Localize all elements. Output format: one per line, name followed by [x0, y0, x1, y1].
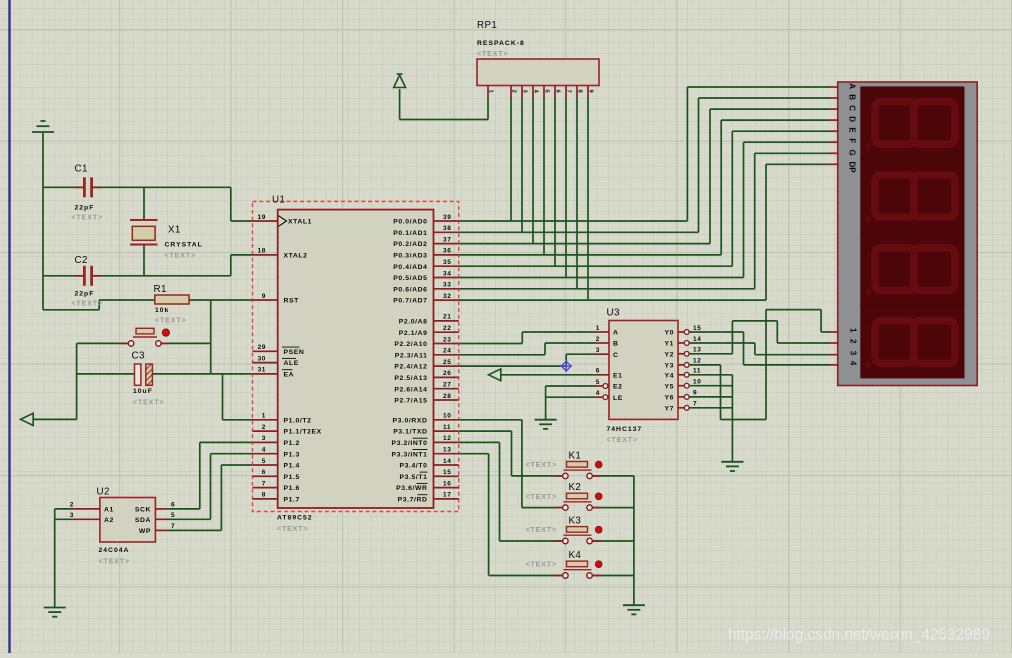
U3 left pin stubs: [596, 332, 610, 400]
svg-text:P0.7/AD7: P0.7/AD7: [393, 298, 427, 305]
wire RP1 pin8 pull-up to P0.6: [576, 98, 578, 289]
svg-text:XTAL1: XTAL1: [288, 219, 312, 226]
svg-text:U1: U1: [272, 195, 285, 206]
svg-text:19: 19: [258, 214, 266, 221]
wire reset button left lead: [77, 342, 129, 344]
svg-text:P3.3/INT1: P3.3/INT1: [392, 451, 428, 458]
svg-text:14: 14: [693, 336, 701, 343]
capacitor C1: [74, 177, 102, 197]
svg-text:<TEXT>: <TEXT>: [526, 562, 557, 569]
svg-text:ALE: ALE: [284, 360, 299, 367]
svg-text:K4: K4: [569, 550, 582, 561]
wire reset button right lead: [161, 342, 211, 344]
U3 right pin numbers: [693, 325, 701, 408]
svg-text:SCK: SCK: [135, 506, 151, 513]
ground below U2: [44, 608, 66, 617]
crystal X1: [130, 220, 158, 245]
4-digit 7-segment display (rotated): [830, 82, 978, 386]
wire P1.0 to EA net: [223, 374, 253, 420]
svg-text:P3.0/RXD: P3.0/RXD: [392, 417, 427, 424]
ground U3 Y outputs: [721, 462, 743, 471]
wire R1 left to ground: [43, 300, 155, 310]
svg-text:P0.4/AD4: P0.4/AD4: [393, 264, 427, 271]
svg-text:U2: U2: [97, 487, 110, 498]
svg-text:25: 25: [443, 359, 451, 366]
svg-text:Y4: Y4: [664, 372, 674, 379]
svg-text:26: 26: [443, 370, 451, 377]
svg-text:C2: C2: [75, 255, 88, 266]
U2 pin stubs: [72, 509, 169, 531]
U1 right pin stubs: [434, 221, 459, 499]
svg-text:P1.3: P1.3: [284, 451, 300, 458]
svg-text:3: 3: [849, 351, 858, 356]
U3 left pin numbers: [596, 325, 600, 397]
display segment pin stubs: [830, 87, 839, 164]
wire U2 A1/A2 to ground: [55, 509, 72, 607]
svg-text:30: 30: [258, 355, 266, 362]
svg-text:P2.7/A15: P2.7/A15: [394, 398, 427, 405]
svg-text:C: C: [613, 352, 619, 359]
wire C2 row left: [43, 275, 83, 277]
svg-text:U3: U3: [607, 308, 620, 319]
wire lead to left power arrow: [33, 418, 77, 420]
wire P3.3 to K4: [459, 454, 563, 576]
resistor R1: [155, 295, 189, 304]
svg-text:39: 39: [443, 214, 451, 221]
push button K2: [554, 493, 603, 510]
svg-text:Y3: Y3: [664, 363, 674, 370]
svg-text:<TEXT>: <TEXT>: [155, 318, 186, 325]
wire button/C3 left vertical: [76, 343, 78, 419]
wire P0.0 to display segment A: [459, 87, 830, 221]
wire X1 bottom lead: [143, 245, 145, 276]
IC U1 AT89C52 selection box: [253, 202, 459, 512]
svg-text:11: 11: [443, 424, 451, 431]
wire U3 E1 to power arrow: [500, 374, 595, 376]
svg-text:C: C: [848, 105, 857, 111]
svg-text:<TEXT>: <TEXT>: [526, 462, 557, 469]
wire EA pin lead: [211, 373, 253, 375]
svg-text:5: 5: [596, 379, 600, 386]
svg-text:F: F: [848, 138, 857, 143]
svg-text:12: 12: [693, 358, 701, 365]
svg-text:XTAL2: XTAL2: [284, 253, 308, 260]
svg-text:<TEXT>: <TEXT>: [165, 253, 196, 260]
svg-text:P2.5/A13: P2.5/A13: [394, 375, 427, 382]
svg-text:10k: 10k: [155, 307, 169, 314]
svg-text:1: 1: [849, 328, 858, 333]
wire C3 right lead: [152, 373, 210, 375]
svg-text:23: 23: [443, 336, 451, 343]
svg-text:P2.6/A14: P2.6/A14: [394, 386, 427, 393]
svg-text:8: 8: [262, 492, 266, 499]
7seg digit 1: [875, 102, 955, 145]
svg-text:6: 6: [171, 502, 175, 509]
wire P3.0 to K2: [459, 420, 563, 508]
display pin labels 1234: [849, 328, 858, 366]
svg-text:B: B: [848, 94, 857, 100]
svg-text:28: 28: [443, 393, 451, 400]
svg-text:P0.5/AD5: P0.5/AD5: [393, 275, 427, 282]
IC U3 74HC137: [609, 321, 678, 420]
svg-text:<TEXT>: <TEXT>: [526, 494, 557, 501]
wire GND vertical from top-left ground: [42, 133, 44, 310]
svg-text:15: 15: [693, 325, 701, 332]
wire RP1 pin5 pull-up to P0.3: [543, 98, 545, 255]
wire P0.5 to display segment F: [459, 142, 830, 277]
svg-text:P1.5: P1.5: [284, 474, 300, 481]
svg-text:https://blog.csdn.net/weixin_4: https://blog.csdn.net/weixin_42532989: [728, 627, 990, 644]
svg-text:P2.0/A8: P2.0/A8: [399, 319, 428, 326]
wire U3 Y4-Y7 to ground: [689, 375, 732, 462]
svg-text:RST: RST: [284, 298, 300, 305]
svg-text:10: 10: [693, 379, 701, 386]
U1 XTAL1 clock mark: [279, 216, 287, 227]
svg-text:4: 4: [849, 361, 858, 366]
svg-text:P1.2: P1.2: [284, 440, 300, 447]
push button K3: [554, 526, 603, 543]
svg-text:C1: C1: [75, 164, 88, 175]
svg-text:P1.6: P1.6: [284, 485, 300, 492]
wire RP1 pin2 pull-up to P0.0: [510, 98, 512, 222]
svg-text:DP: DP: [848, 162, 857, 174]
svg-text:P3.4/T0: P3.4/T0: [399, 463, 427, 470]
svg-text:38: 38: [443, 225, 451, 232]
svg-text:<TEXT>: <TEXT>: [72, 301, 103, 308]
svg-text:P1.1/T2EX: P1.1/T2EX: [284, 429, 322, 436]
svg-text:4: 4: [262, 447, 266, 454]
svg-text:<TEXT>: <TEXT>: [72, 215, 103, 222]
wire keys common to ground: [592, 476, 634, 605]
sheet border line: [8, 0, 10, 653]
RP1 pin numbers: [488, 90, 594, 94]
wire P1.3 to U2 SDA: [169, 454, 253, 520]
resistor pack RP1: [477, 59, 599, 86]
svg-text:P2.3/A11: P2.3/A11: [395, 352, 428, 359]
svg-text:6: 6: [596, 368, 600, 375]
svg-text:LE: LE: [613, 395, 623, 402]
svg-text:P0.2/AD2: P0.2/AD2: [393, 241, 427, 248]
svg-text:37: 37: [443, 236, 451, 243]
svg-text:Y2: Y2: [664, 351, 674, 358]
display digit pin stubs: [830, 332, 839, 365]
svg-text:Y6: Y6: [664, 395, 674, 402]
wire RP1 pin9 pull-up to P0.7: [587, 98, 589, 301]
svg-text:CRYSTAL: CRYSTAL: [165, 242, 203, 249]
7seg digit 2: [875, 175, 955, 218]
wire P0.4 to display segment E: [459, 131, 830, 266]
wire RP1 pin3 pull-up to P0.1: [521, 98, 523, 233]
svg-text:7: 7: [171, 523, 175, 530]
svg-text:P3.7/RD: P3.7/RD: [398, 497, 428, 504]
wire P3.1 to K1: [459, 431, 563, 476]
svg-text:P0.1/AD1: P0.1/AD1: [393, 230, 427, 237]
svg-text:P2.4/A12: P2.4/A12: [394, 364, 427, 371]
svg-text:P1.0/T2: P1.0/T2: [284, 417, 312, 424]
svg-text:22pF: 22pF: [75, 205, 95, 212]
wire C1 row left: [43, 186, 83, 188]
svg-text:9: 9: [693, 390, 697, 397]
svg-text:P3.1/TXD: P3.1/TXD: [393, 429, 427, 436]
wire U3 Y1 to display pin3: [689, 343, 829, 355]
U3 right pin stubs: [678, 330, 689, 411]
svg-text:K1: K1: [569, 450, 582, 461]
U3 right pin labels: [664, 330, 674, 413]
wire P0.6 to display segment G: [459, 153, 830, 288]
svg-text:7: 7: [262, 480, 266, 487]
wire P0.1 to display segment B: [459, 98, 830, 232]
ground top-left (inverted): [32, 121, 54, 132]
svg-text:P3.6/WR: P3.6/WR: [396, 485, 427, 492]
svg-text:22pF: 22pF: [75, 291, 95, 298]
wire P1.2 to U2 SCK: [169, 442, 253, 509]
svg-text:<TEXT>: <TEXT>: [607, 437, 638, 444]
wire RST net vertical: [210, 300, 212, 374]
svg-text:3: 3: [70, 512, 74, 519]
svg-text:P0.3/AD3: P0.3/AD3: [393, 253, 427, 260]
svg-text:WP: WP: [139, 528, 151, 535]
U1 left pin labels: [282, 219, 322, 504]
svg-text:AT89C52: AT89C52: [277, 515, 313, 522]
wire RP1 pin6 pull-up to P0.4: [554, 98, 556, 267]
svg-text:13: 13: [693, 347, 701, 354]
wire RP1 pin1 to VCC arrow: [400, 89, 488, 120]
wire C1 row right to XTAL1 riser: [93, 187, 253, 221]
svg-text:5: 5: [262, 458, 266, 465]
svg-text:D: D: [848, 116, 857, 122]
svg-text:P3.2/INT0: P3.2/INT0: [392, 440, 428, 447]
wire P0.7 to display segment DP: [459, 164, 830, 300]
svg-text:34: 34: [443, 270, 451, 277]
display pin labels ABCDEFG DP: [848, 83, 857, 173]
wire X1 top lead: [143, 187, 145, 220]
wire P2.4 to U3 C: [459, 354, 596, 366]
svg-text:3: 3: [262, 435, 266, 442]
svg-text:<TEXT>: <TEXT>: [277, 526, 308, 533]
svg-text:P0.6/AD6: P0.6/AD6: [393, 286, 427, 293]
wire U3 Y3 to display pin1: [689, 310, 829, 420]
svg-text:1: 1: [262, 413, 266, 420]
wire C2 row right to XTAL2 riser: [93, 255, 253, 276]
svg-text:33: 33: [443, 282, 451, 289]
svg-text:EA: EA: [284, 372, 295, 379]
svg-text:RESPACK-8: RESPACK-8: [477, 40, 525, 47]
push button K4: [554, 561, 603, 578]
svg-text:B: B: [613, 341, 619, 348]
power arrow VCC (RP1 pin1): [394, 74, 406, 88]
7seg digit 4: [875, 321, 955, 364]
wire RP1 pin7 pull-up to P0.5: [565, 98, 567, 278]
U1 left pin numbers: [258, 214, 266, 499]
svg-text:10: 10: [443, 413, 451, 420]
svg-text:16: 16: [443, 480, 451, 487]
svg-text:24C04A: 24C04A: [99, 547, 130, 554]
svg-text:K2: K2: [569, 482, 582, 493]
svg-text:3: 3: [596, 347, 600, 354]
svg-text:A1: A1: [104, 506, 114, 513]
wire P2.3 to U3 B: [459, 343, 596, 355]
7seg digit 3: [875, 248, 955, 291]
wire U3 Y2 to display pin2: [689, 321, 829, 354]
svg-text:17: 17: [443, 492, 451, 499]
svg-text:G: G: [848, 150, 857, 156]
svg-text:P2.1/A9: P2.1/A9: [399, 330, 428, 337]
U3 left pin labels: [613, 330, 623, 402]
wire R1 right to RST pin: [189, 299, 252, 301]
svg-text:Y0: Y0: [664, 330, 674, 337]
IC U1 AT89C52 body: [278, 210, 434, 508]
svg-text:Y5: Y5: [664, 383, 674, 390]
svg-text:13: 13: [443, 447, 451, 454]
power arrow (U3 E1): [489, 369, 501, 381]
ground U3 E2/LE: [535, 420, 557, 429]
svg-text:5: 5: [171, 512, 175, 519]
svg-text:2: 2: [511, 90, 517, 93]
svg-text:Y1: Y1: [664, 341, 674, 348]
svg-text:22: 22: [443, 325, 451, 332]
svg-text:PSEN: PSEN: [284, 349, 305, 356]
svg-text:RP1: RP1: [477, 20, 497, 31]
svg-text:27: 27: [443, 382, 451, 389]
wire U3 E2/LE to ground: [546, 386, 596, 420]
wire P2.2 to U3 A: [459, 332, 596, 344]
capacitor C2: [74, 266, 102, 286]
U2 pin labels: [104, 506, 151, 535]
RP1 pin stubs: [488, 86, 588, 98]
svg-text:21: 21: [443, 314, 451, 321]
U1 right pin numbers: [443, 214, 451, 499]
svg-text:2: 2: [849, 339, 858, 344]
U1 left pin stubs: [253, 221, 278, 499]
U1 right pin labels: [392, 219, 428, 504]
svg-text:<TEXT>: <TEXT>: [133, 400, 164, 407]
svg-text:36: 36: [443, 248, 451, 255]
svg-text:7: 7: [693, 401, 697, 408]
svg-text:SDA: SDA: [135, 517, 151, 524]
svg-text:24: 24: [443, 348, 451, 355]
wire RP1 pin4 pull-up to P0.2: [532, 98, 534, 244]
wire P0.3 to display segment D: [459, 120, 830, 255]
svg-text:E1: E1: [613, 372, 623, 379]
IC U2 24C04A: [100, 498, 155, 543]
svg-text:9: 9: [262, 293, 266, 300]
svg-text:R1: R1: [154, 284, 167, 295]
svg-text:A: A: [613, 330, 619, 337]
svg-text:C3: C3: [132, 351, 145, 362]
svg-text:2: 2: [70, 502, 74, 509]
svg-text:18: 18: [258, 248, 266, 255]
svg-text:4: 4: [596, 390, 600, 397]
svg-text:P1.4: P1.4: [284, 463, 300, 470]
svg-text:11: 11: [693, 368, 701, 375]
svg-text:P0.0/AD0: P0.0/AD0: [393, 219, 427, 226]
svg-text:7: 7: [566, 90, 572, 93]
svg-text:K3: K3: [569, 516, 582, 527]
svg-text:32: 32: [443, 293, 451, 300]
ground keys common: [623, 605, 645, 614]
svg-text:14: 14: [443, 458, 451, 465]
svg-text:E: E: [848, 127, 857, 133]
svg-text:Y7: Y7: [664, 405, 674, 412]
svg-text:A: A: [848, 83, 857, 89]
U2 pin numbers: [70, 502, 175, 531]
svg-text:A2: A2: [104, 517, 114, 524]
svg-text:6: 6: [262, 469, 266, 476]
push button K1: [554, 461, 603, 478]
svg-text:<TEXT>: <TEXT>: [526, 527, 557, 534]
wire P1.4 to U2 WP: [169, 465, 253, 530]
svg-text:P1.7: P1.7: [284, 497, 300, 504]
svg-text:31: 31: [258, 367, 266, 374]
svg-text:<TEXT>: <TEXT>: [99, 559, 130, 566]
wire C3 left lead: [77, 373, 135, 375]
svg-text:E2: E2: [613, 384, 623, 391]
wire P3.2 to K3: [459, 442, 563, 541]
svg-text:29: 29: [258, 344, 266, 351]
no-ERC marker (blue diamond): [560, 360, 572, 372]
svg-text:74HC137: 74HC137: [607, 426, 643, 433]
wire P0.2 to display segment C: [459, 109, 830, 244]
svg-text:10uF: 10uF: [133, 388, 153, 395]
svg-text:P2.2/A10: P2.2/A10: [394, 341, 427, 348]
power arrow (left, reset net): [21, 413, 34, 425]
svg-text:P3.5/T1: P3.5/T1: [399, 474, 427, 481]
svg-text:1: 1: [596, 325, 600, 332]
wire U3 Y0 to display pin4: [689, 332, 829, 365]
svg-text:35: 35: [443, 259, 451, 266]
svg-text:<TEXT>: <TEXT>: [477, 51, 508, 58]
svg-text:2: 2: [262, 424, 266, 431]
svg-text:15: 15: [443, 469, 451, 476]
svg-text:X1: X1: [168, 225, 181, 236]
svg-text:2: 2: [596, 336, 600, 343]
svg-text:12: 12: [443, 435, 451, 442]
push button (reset): [121, 328, 169, 346]
